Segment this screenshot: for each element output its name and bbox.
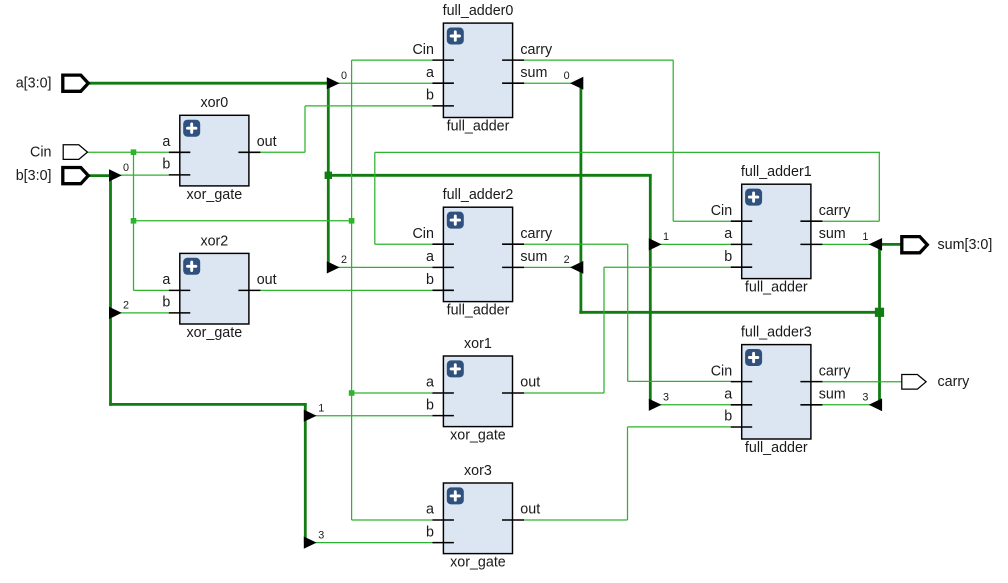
block xor2 (xor_gate) [162, 233, 276, 341]
wire xor1.out vertical x=604 [603, 267, 605, 393]
wire xor2.out to full_adder2.b [260, 289, 433, 291]
wire full_adder0.sum to tap [524, 82, 572, 84]
svg-text:a: a [162, 134, 170, 150]
svg-text:full_adder: full_adder [745, 440, 808, 456]
wire b bus vertical x=110 [109, 174, 112, 406]
port b[3:0] input [16, 168, 89, 184]
bus tap sum1 [862, 231, 882, 251]
svg-text:a: a [426, 249, 434, 265]
wire full_adder0.carry east [524, 59, 673, 61]
wire xor0.out east [260, 151, 305, 153]
svg-text:b: b [162, 295, 170, 311]
svg-text:full_adder: full_adder [745, 280, 808, 296]
wire Cin net vertical x=351 [351, 60, 353, 520]
bus tap a2 [327, 254, 347, 273]
svg-text:carry: carry [819, 203, 852, 219]
wire b bus horizontal y=404 [109, 403, 307, 406]
svg-text:full_adder: full_adder [447, 303, 510, 319]
svg-text:b: b [724, 409, 732, 425]
svg-text:sum[3:0]: sum[3:0] [938, 237, 993, 253]
svg-text:b: b [724, 249, 732, 265]
svg-text:xor_gate: xor_gate [450, 428, 506, 444]
svg-text:xor_gate: xor_gate [450, 555, 506, 571]
svg-text:xor_gate: xor_gate [187, 325, 243, 341]
svg-text:Cin: Cin [711, 363, 733, 379]
wire a2 tap to full_adder2.a [337, 266, 432, 268]
svg-text:2: 2 [123, 300, 129, 312]
wire sum bus to output port [880, 243, 904, 246]
svg-text:3: 3 [318, 529, 324, 541]
wire xor3.out to full_adder3.b [628, 426, 731, 428]
svg-text:xor_gate: xor_gate [187, 187, 243, 203]
wire a[3:0] bus horizontal from port [86, 82, 330, 85]
bus tap a3 [649, 392, 669, 411]
wire a bus horizontal y=175 [327, 174, 652, 177]
svg-text:0: 0 [123, 162, 129, 174]
block full_adder1 (full_adder) [711, 164, 852, 296]
svg-text:carry: carry [520, 226, 553, 242]
svg-text:Cin: Cin [412, 226, 434, 242]
wire a3 tap to full_adder3.a [659, 404, 731, 406]
wire full_adder1.carry to full_adder2.Cin [375, 243, 433, 245]
wire a bus vertical x=650 [649, 174, 652, 405]
wire xor3.out vertical x=627 [627, 427, 629, 520]
wire Cin net horizontal y=220 [134, 220, 352, 222]
wire xor3.out east [524, 519, 628, 521]
svg-text:b: b [426, 88, 434, 104]
svg-text:Cin: Cin [711, 203, 733, 219]
svg-text:a: a [724, 387, 732, 403]
svg-text:xor0: xor0 [200, 95, 228, 111]
wire Cin net to full_adder0.Cin [352, 59, 433, 61]
junction node Cin at x=351 branch [349, 218, 355, 224]
svg-text:1: 1 [862, 231, 868, 243]
block xor1 (xor_gate) [426, 336, 540, 444]
junction node a bus corner branch [325, 172, 332, 179]
svg-text:3: 3 [663, 392, 669, 404]
wire xor0.out vertical x=305 [304, 106, 306, 152]
block full_adder2 (full_adder) [412, 187, 553, 319]
svg-text:a[3:0]: a[3:0] [16, 75, 52, 91]
bus tap b0 [109, 162, 129, 181]
svg-text:xor1: xor1 [464, 336, 492, 352]
svg-text:a: a [426, 65, 434, 81]
wire full_adder1.sum to tap [822, 243, 870, 245]
wire b[3:0] bus horizontal from port [86, 174, 112, 177]
svg-text:3: 3 [862, 392, 868, 404]
bus tap sum2 [564, 254, 584, 274]
svg-text:out: out [257, 134, 277, 150]
svg-text:a: a [724, 226, 732, 242]
svg-text:b: b [426, 397, 434, 413]
wire Cin port to xor0.a [88, 151, 169, 153]
wire b3 tap to xor3.b [314, 542, 433, 544]
wire Cin net to xor1.a [352, 392, 433, 394]
svg-text:carry: carry [819, 363, 852, 379]
wire full_adder2.sum to tap [524, 266, 571, 268]
svg-text:a: a [426, 502, 434, 518]
svg-text:b: b [426, 524, 434, 540]
bus tap b1 [304, 403, 324, 422]
svg-text:Cin: Cin [412, 42, 434, 58]
svg-text:carry: carry [938, 374, 971, 390]
bus tap sum0 [564, 70, 584, 90]
svg-text:carry: carry [520, 42, 553, 58]
bus tap b3 [304, 529, 324, 548]
svg-text:sum: sum [520, 65, 547, 81]
junction node Cin at xor0.a branch [131, 149, 137, 155]
svg-text:2: 2 [341, 254, 347, 266]
svg-text:out: out [520, 375, 540, 391]
wire b0 tap to xor0.b [119, 174, 169, 176]
bus tap sum3 [862, 392, 882, 412]
wire full_adder2.carry to full_adder3.Cin [628, 380, 731, 382]
svg-text:a: a [426, 375, 434, 391]
wire xor0.out to full_adder0.b [305, 105, 432, 107]
wire full_adder0.carry vertical x=673 [672, 60, 674, 221]
bus tap a1 [649, 231, 669, 250]
wire a0 tap to full_adder0.a [337, 82, 432, 84]
wire full_adder2.carry vertical x=627 [627, 244, 629, 381]
junction node Cin at xor1.a branch [349, 390, 355, 396]
svg-text:full_adder2: full_adder2 [443, 187, 514, 203]
svg-text:b[3:0]: b[3:0] [16, 168, 52, 184]
wire xor1.out east [524, 392, 604, 394]
block xor3 (xor_gate) [426, 463, 540, 571]
svg-text:xor3: xor3 [464, 463, 492, 479]
wire Cin net vertical x=133 [133, 152, 135, 290]
svg-text:full_adder0: full_adder0 [443, 3, 514, 19]
wire full_adder2.carry east [524, 243, 628, 245]
svg-text:Cin: Cin [30, 144, 52, 160]
wire sum bus vertical x=879 [878, 244, 881, 404]
wire a bus vertical x=328 [327, 82, 330, 267]
svg-text:0: 0 [341, 70, 347, 82]
wire full_adder1.carry east [822, 220, 879, 222]
block xor0 (xor_gate) [162, 95, 276, 203]
wire sum bus vertical x=580 [580, 83, 583, 314]
junction node Cin at y=220 branch [131, 218, 137, 224]
wire full_adder1.carry vertical x=374 [374, 152, 376, 244]
block full_adder3 (full_adder) [711, 325, 852, 457]
svg-text:2: 2 [564, 254, 570, 266]
block full_adder0 (full_adder) [412, 3, 553, 135]
svg-text:full_adder1: full_adder1 [741, 164, 812, 180]
svg-text:1: 1 [318, 403, 324, 415]
svg-text:full_adder3: full_adder3 [741, 325, 812, 341]
wire full_adder1.carry horizontal y=152 [375, 151, 880, 153]
svg-text:1: 1 [663, 231, 669, 243]
bus tap a0 [327, 70, 347, 89]
svg-text:b: b [162, 157, 170, 173]
wire xor1.out to full_adder1.b [604, 266, 731, 268]
wire sum bus horizontal y=312 [579, 311, 879, 314]
port Cin input [30, 144, 87, 160]
wire a1 tap to full_adder1.a [659, 243, 731, 245]
svg-text:0: 0 [564, 70, 570, 82]
svg-text:out: out [520, 502, 540, 518]
svg-text:full_adder: full_adder [447, 119, 510, 135]
svg-text:sum: sum [819, 226, 846, 242]
wire full_adder0.carry to full_adder1.Cin [673, 220, 731, 222]
svg-text:sum: sum [819, 387, 846, 403]
wire Cin net to xor2.a [134, 289, 169, 291]
svg-text:sum: sum [520, 249, 547, 265]
svg-text:xor2: xor2 [200, 233, 228, 249]
svg-text:out: out [257, 272, 277, 288]
wire Cin net to xor3.a [352, 519, 433, 521]
junction node sum bus at x=879 [875, 308, 884, 317]
svg-text:a: a [162, 272, 170, 288]
port carry output [902, 374, 970, 390]
wire b1 tap to xor1.b [314, 415, 433, 417]
bus tap b2 [109, 300, 129, 319]
wire full_adder1.carry vertical x=879 [878, 152, 880, 221]
wire b2 tap to xor2.b [119, 312, 169, 314]
svg-text:b: b [426, 272, 434, 288]
wire b bus vertical x=305 [304, 403, 307, 543]
port sum[3:0] output [902, 237, 993, 253]
wire full_adder3.carry to carry port [822, 381, 902, 383]
port a[3:0] input [16, 75, 89, 91]
wire full_adder3.sum to tap [822, 404, 870, 406]
